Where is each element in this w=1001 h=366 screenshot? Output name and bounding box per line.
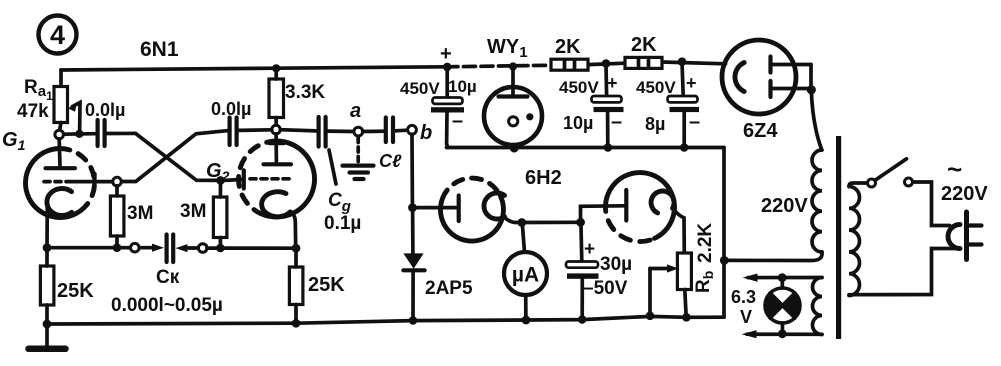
mains plug prongs [966, 226, 982, 245]
svg-text:2K: 2K [631, 34, 657, 56]
node: bus junction at third filter cap [678, 57, 687, 66]
node: plates junction [807, 85, 816, 94]
node: Ck right ring terminal [198, 244, 207, 253]
tube V1 grid pin tick [92, 174, 96, 190]
svg-text:Cк: Cк [156, 267, 180, 288]
node: junction meter [517, 218, 526, 227]
tube V1 triode G1 envelope solid arc [25, 149, 86, 218]
wire: second cap to plate ring [239, 128, 272, 132]
earth ground at a [343, 164, 374, 168]
svg-text:+: + [686, 73, 697, 93]
potentiometer Rb 2.2K body [677, 253, 691, 290]
wire: 25K first leads [45, 248, 49, 324]
tube WY1 indicator envelope [484, 87, 542, 145]
svg-text:V: V [740, 307, 752, 327]
wire: 25K second leads [294, 248, 298, 323]
node: Ck left ring terminal [131, 243, 140, 252]
svg-text:6Z4: 6Z4 [743, 120, 778, 142]
tube V1 envelope dashed arc [60, 149, 94, 206]
svg-text:2K: 2K [555, 36, 581, 58]
svg-text:0.0lµ: 0.0lµ [85, 100, 125, 120]
svg-text:2.2K: 2.2K [695, 223, 716, 263]
svg-text:6N1: 6N1 [140, 38, 179, 61]
wire: 3M first top lead [115, 186, 119, 196]
node: bus junction at second filter cap [602, 59, 611, 68]
transformer primary winding [849, 187, 860, 296]
figure number 4 (circled) [39, 16, 77, 54]
capacitor Cl plates [384, 118, 388, 143]
Rb wiper arrow and tap [650, 267, 672, 271]
resistor 3M first body [110, 196, 124, 236]
node: junction diode at rail [409, 316, 418, 325]
node: junction V1 cathode / 25K [43, 243, 52, 252]
wire: drop from bus to Ra1 [59, 70, 63, 87]
meter uA body [504, 252, 547, 295]
potentiometer Ra1 wiper arrow and tap [73, 103, 81, 134]
resistor 2K second body [625, 57, 662, 68]
variable capacitor Ck plates [165, 235, 169, 263]
node: Rb bottom at rail [682, 313, 691, 322]
wire: Rb bottom lead [685, 290, 686, 318]
node: WY1 at mid rail [510, 144, 519, 153]
wire: bottom ground rail [47, 316, 724, 324]
svg-text:~: ~ [947, 154, 962, 184]
capacitor 0.01u second plates [228, 118, 232, 146]
resistor 25K first body [40, 266, 54, 305]
tube V3 anode bar [457, 196, 461, 222]
terminal a ring [354, 127, 363, 136]
lamp leads [780, 278, 784, 334]
wire: Cg to terminal a [328, 129, 354, 133]
svg-text:b: b [420, 122, 432, 144]
wire: Ck left arrow lead [140, 246, 157, 250]
node: G1 grid ring terminal [113, 177, 122, 186]
wire: plate ring to Cg [280, 130, 316, 131]
wire: b down to detector node [410, 134, 414, 203]
wire: switch to plug [913, 182, 950, 226]
tube V3 (half 6H2) envelope solid arc [440, 196, 503, 241]
wire: bus from 2K to 6Z4 [662, 62, 726, 64]
node: V2 plate ring terminal [272, 125, 281, 134]
tube V3 cathode hook [484, 193, 505, 219]
wire: cap to cross-coupling diagonal down to G2 grid [107, 133, 217, 180]
svg-text:10µ: 10µ [563, 113, 593, 133]
svg-text:2AP5: 2AP5 [425, 278, 473, 299]
wire: filament top with arrow [748, 276, 822, 280]
wire: V4 cathode lead to Rb [673, 208, 685, 253]
capacitor 0.01u (first, from G1 plate) [95, 120, 99, 146]
capacitor 10u 450V second electrolytic [604, 64, 608, 96]
svg-text:Cℓ: Cℓ [379, 151, 402, 171]
wire: WY1 bottom lead [511, 145, 515, 148]
resistor 3.3K body [269, 79, 284, 118]
svg-text:0.1µ: 0.1µ [324, 213, 361, 234]
tube V2 envelope dashed arc [239, 141, 277, 213]
terminal b ring [408, 125, 417, 134]
node: junction 3M second bottom [216, 244, 225, 253]
svg-text:47k: 47k [17, 101, 49, 122]
tube V1 grid (dashed inside) [44, 180, 68, 184]
pointer line to Cg label [329, 150, 336, 184]
svg-text:30µ: 30µ [600, 254, 632, 275]
wire: plates to HV winding top [811, 90, 822, 150]
node: junction 30u cap [576, 218, 585, 227]
node: junction of wiper tap [75, 130, 83, 138]
transformer HV secondary winding 220V [812, 150, 822, 252]
tube V4 grid bar [624, 190, 628, 221]
wire: Ck right arrow lead [183, 246, 198, 250]
switch blade [875, 159, 907, 181]
node: bus junction at WY1 [509, 62, 517, 70]
wire: V1 cathode lead down [45, 204, 49, 248]
wire: V2 cathode lead down [290, 212, 295, 248]
svg-text:220V: 220V [761, 195, 808, 217]
svg-text:25K: 25K [57, 280, 94, 302]
node: bus junction at first filter cap [443, 63, 452, 72]
node: junction b wire / V3 plate [408, 203, 417, 212]
wire: 3.3K bottom lead [274, 118, 278, 126]
wire: plug bottom return to primary [849, 249, 958, 295]
svg-text:+: + [440, 43, 452, 65]
svg-text:450V: 450V [400, 79, 440, 98]
tube 6Z4 plate 2 bar and lead [768, 81, 772, 97]
node: junction 25K second at rail [292, 319, 301, 328]
tube V2 grid dashed [250, 177, 293, 181]
wire: Ra1 bottom lead to plate terminal [60, 123, 61, 131]
svg-text:10µ: 10µ [448, 77, 477, 96]
node: lamp top junction [778, 273, 787, 282]
tube V1 grid lead [68, 180, 113, 184]
tube V2 cathode hook [262, 192, 291, 217]
wire: mid B- rail [447, 146, 725, 150]
transformer core [836, 136, 841, 339]
svg-text:6H2: 6H2 [525, 167, 562, 189]
capacitor 10u 450V first electrolytic [445, 67, 449, 97]
wire: diode to ground rail [411, 271, 415, 321]
svg-text:+: + [607, 73, 618, 93]
transformer filament winding 6.3V [813, 278, 823, 335]
wire: G1 grid to cross-coupling diagonal up to second cap [122, 131, 227, 182]
wire: 3M second leads [219, 185, 223, 248]
tube V2 grid pin tick [242, 170, 246, 188]
svg-text:8µ: 8µ [645, 114, 665, 134]
svg-text:25K: 25K [308, 274, 345, 296]
diode 2AP5 [403, 253, 423, 268]
wire: a to Cl cap [363, 129, 383, 133]
svg-text:3M: 3M [127, 203, 153, 224]
wire: junction down to diode [411, 208, 415, 253]
svg-text:–50V: –50V [583, 278, 628, 299]
switch pole ring [868, 179, 876, 187]
svg-text:0.000l~0.05µ: 0.000l~0.05µ [111, 295, 223, 316]
svg-text:–: – [611, 111, 622, 133]
node: G2 grid junction [216, 176, 225, 185]
wire: bus between 2K resistors [588, 63, 625, 64]
wire: Ck ring to V2 cathode junction [207, 246, 296, 250]
wire: HV winding bottom return [725, 252, 823, 261]
svg-text:a: a [350, 100, 361, 122]
tube V1 cathode hook [47, 189, 72, 216]
node: junction ground rail left [43, 320, 52, 329]
svg-text:450V: 450V [559, 78, 599, 97]
svg-text:–: – [452, 110, 463, 132]
svg-text:0.0lµ: 0.0lµ [211, 99, 251, 119]
resistor 2K first body [551, 59, 588, 70]
node: 8u cap at mid rail [680, 143, 689, 152]
svg-text:µA: µA [512, 264, 539, 287]
tube V4 (half 6H2) envelope solid arc [606, 173, 674, 239]
wire: filament bottom with arrow [747, 332, 822, 336]
resistor 25K second body [289, 267, 303, 305]
node: meter at rail [522, 316, 531, 325]
node: junction V2 cathode / 25K second [292, 244, 301, 253]
node: plate terminal ring of G1 [55, 130, 64, 139]
svg-text:4: 4 [50, 20, 65, 50]
tube WY1 inner dot [526, 113, 533, 120]
tube WY1 top electrode bar and lead [511, 67, 515, 97]
node: bus junction at 3.3K [272, 64, 280, 72]
node: HV return junction [720, 256, 729, 265]
svg-text:3M: 3M [180, 201, 206, 222]
lamp 6.3V body [765, 288, 800, 323]
wire: plates joined [809, 65, 813, 90]
wire: V3 cathode lead to meter node [504, 217, 518, 223]
switch throw ring [905, 178, 913, 186]
tube V1 anode bar and lead [57, 139, 61, 167]
node: lamp bottom junction [778, 329, 787, 338]
mains plug arc [948, 225, 960, 249]
wire: mid rail down right side [722, 148, 726, 318]
wire: top B+ bus (left solid part) [61, 67, 446, 70]
wire: meter leads [523, 226, 526, 320]
node: junction 3M first bottom [113, 243, 122, 252]
mains plug bar [964, 212, 969, 260]
svg-text:450V: 450V [636, 78, 676, 97]
wire: top bus dashed segment to WY1 and 2K [446, 65, 549, 67]
tube V4 cathode hook [651, 191, 674, 213]
capacitor 30u -50V electrolytic [579, 226, 583, 261]
wire: up and over to V4 grid [581, 206, 625, 223]
wire: plate node horizontal to coupling cap [64, 132, 96, 136]
wire: G2 grid lead [225, 179, 244, 180]
rectifier tube 6Z4 envelope [722, 40, 796, 114]
wire: 3M first bottom lead [115, 236, 119, 248]
wire: 3.3K top lead [274, 68, 278, 79]
dashed earth lead at a [356, 138, 360, 163]
ground symbol (chassis bar) [45, 324, 49, 347]
svg-text:220V: 220V [941, 183, 988, 205]
node: 30u cap at rail [578, 315, 587, 324]
svg-text:–: – [689, 111, 700, 133]
node: second cap at mid rail [604, 143, 613, 152]
potentiometer Ra1 47k body [54, 87, 68, 123]
svg-text:3.3K: 3.3K [285, 82, 325, 103]
tube 6Z4 plate 1 bar and lead [768, 57, 772, 73]
wire: primary top to switch [849, 183, 867, 187]
capacitor Cg plates [317, 117, 321, 147]
node: Rb wiper at rail [646, 312, 655, 321]
svg-text:+: + [584, 239, 595, 260]
wire: V3 plate lead [417, 206, 457, 210]
wire: meter node to cap node [522, 220, 581, 224]
tube V4 envelope dashed arc [605, 201, 654, 242]
capacitor 8u 450V electrolytic [682, 62, 683, 96]
resistor 3M second body [213, 197, 227, 238]
tube V2 triode G2 envelope solid arc [260, 141, 314, 217]
wire: cathode line G1 to Ck left ring [47, 246, 130, 250]
wire: Cl to terminal b [395, 128, 407, 132]
tube WY1 inner target circle [509, 117, 518, 126]
tube V2 anode lead and bar [274, 134, 278, 163]
tube 6Z4 cathode arc [735, 63, 744, 92]
tube V3 envelope dashed arc [442, 178, 500, 199]
svg-text:6.3: 6.3 [731, 287, 756, 307]
